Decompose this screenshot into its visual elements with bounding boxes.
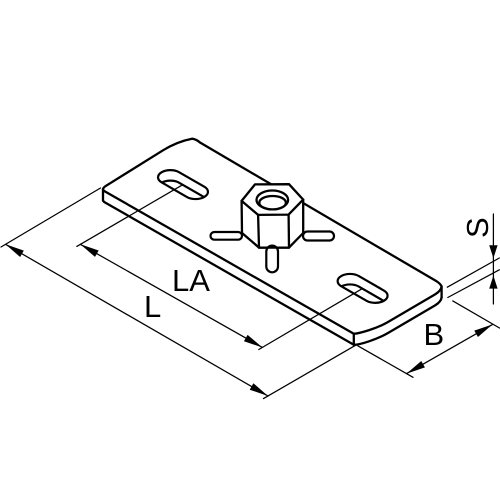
plate bottom face visible edge xyxy=(103,200,442,345)
hex nut front corner edges xyxy=(258,215,289,248)
slot hole 2 inner wall xyxy=(338,284,388,313)
slot hole 1 outline xyxy=(158,170,208,199)
hex nut body xyxy=(242,184,304,247)
arrowhead LA left xyxy=(80,244,98,257)
plate left corner vertical edge xyxy=(102,189,104,200)
weld pin right xyxy=(303,232,334,241)
dimension line S vertical xyxy=(492,214,494,304)
dimension line L xyxy=(6,244,269,396)
dimension extension line S upper xyxy=(447,258,499,287)
arrowhead L left xyxy=(6,244,24,257)
arrowhead B right xyxy=(474,324,492,337)
arrowhead S down xyxy=(489,245,497,258)
plate top face xyxy=(103,139,442,334)
hex nut top facet edges xyxy=(242,200,304,215)
weld pin bottom xyxy=(266,246,278,273)
dimension extension line B left xyxy=(358,346,413,378)
dimension extension line B right xyxy=(453,301,500,328)
nut bottom edge over pin xyxy=(259,246,289,248)
leader line slot2 to LA xyxy=(259,288,363,349)
dimension extension line L right xyxy=(264,345,356,398)
svg-text:S: S xyxy=(460,217,495,238)
arrowhead LA right xyxy=(244,335,262,348)
svg-text:L: L xyxy=(144,289,161,324)
dimension line B xyxy=(407,324,493,373)
leader line slot1 to LA xyxy=(77,185,183,247)
svg-text:LA: LA xyxy=(172,263,210,298)
plate right corner vertical edge xyxy=(440,286,442,297)
nut thread chamfer ellipse xyxy=(257,191,289,210)
slot hole 1 inner wall xyxy=(158,181,208,210)
arrowhead S up xyxy=(489,276,497,289)
plate front corner vertical edge xyxy=(353,334,355,345)
dimension extension line S lower xyxy=(448,270,500,298)
slot hole 2 outline xyxy=(338,274,388,303)
weld pin left xyxy=(211,232,243,240)
arrowhead L right xyxy=(250,383,268,396)
arrowhead B left xyxy=(407,361,425,374)
dimension line LA xyxy=(80,244,262,347)
svg-text:B: B xyxy=(424,317,445,352)
dimension extension line L left xyxy=(1,188,101,247)
nut thread hole ellipse xyxy=(259,196,286,209)
